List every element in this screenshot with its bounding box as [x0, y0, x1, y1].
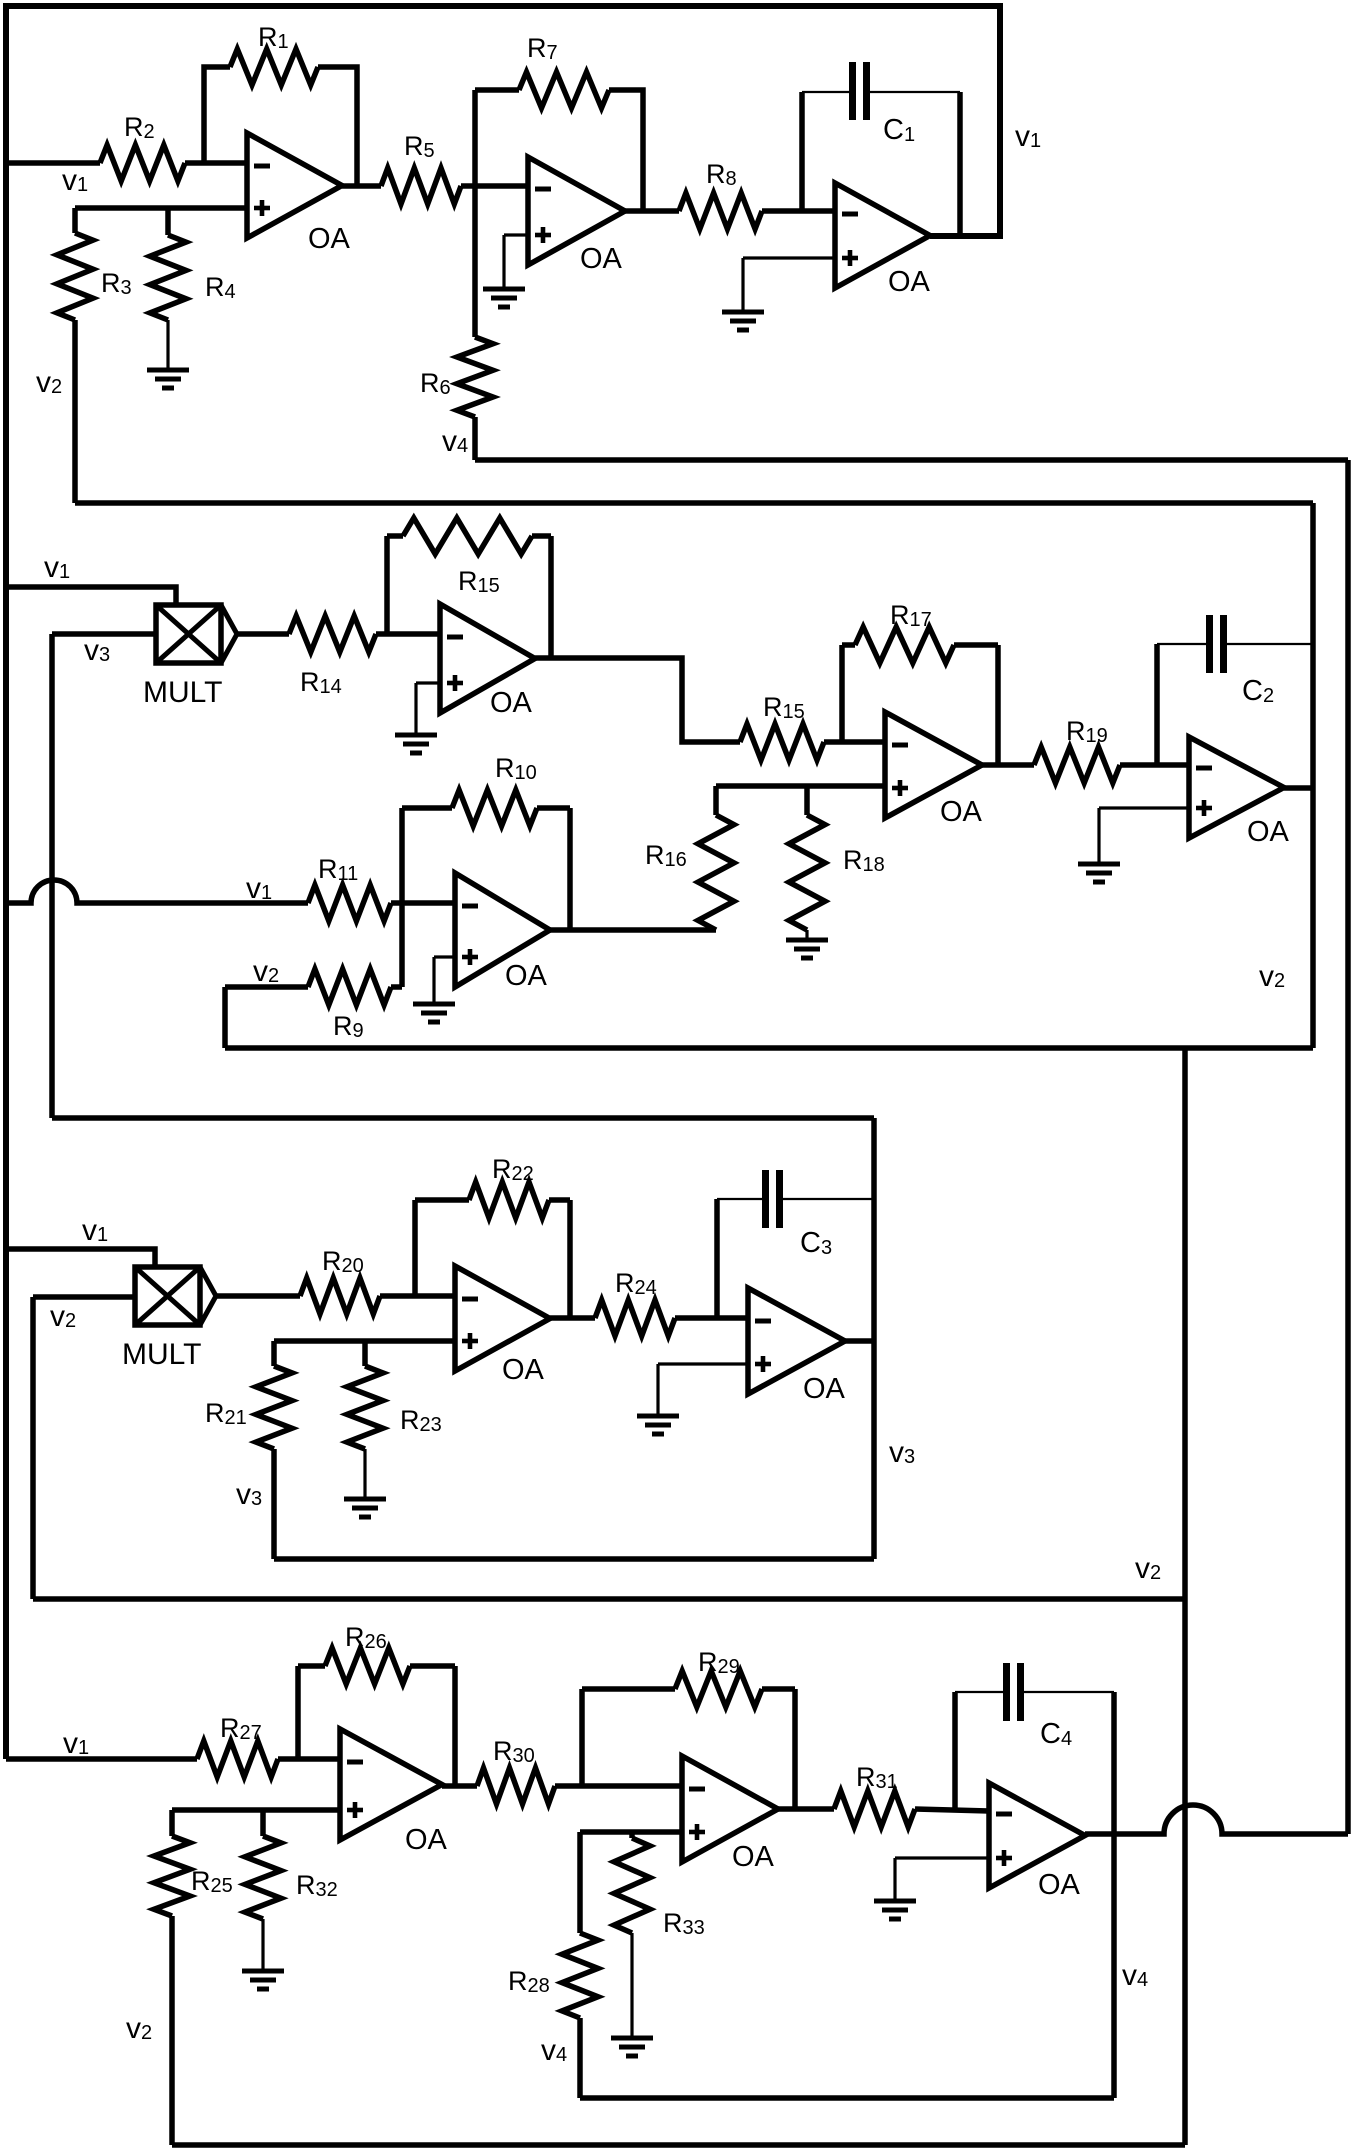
- wire U11 non-inverting input bus: [580, 1829, 682, 1835]
- op-amp U5 (OA): [885, 712, 983, 828]
- wire R17 feedback leads: [842, 645, 998, 765]
- wire R7 left lead / node to R6: [472, 90, 478, 337]
- node V4 label (R6 bottom): [442, 425, 468, 458]
- wire U10 non-inverting input bus: [172, 1807, 340, 1813]
- wire R15 feedback leads (U4): [387, 536, 551, 658]
- wire U2 + input to ground: [504, 235, 528, 287]
- resistor R6: [420, 337, 493, 417]
- wire R29 feedback leads: [582, 1689, 795, 1809]
- wire R23 top lead: [362, 1341, 368, 1366]
- wire U6 output to R16 bottom: [550, 927, 716, 933]
- wire U10 output to R30: [442, 1783, 477, 1789]
- wire V2 drop to bottom rail: [1182, 1599, 1188, 2145]
- resistor R20: [300, 1246, 380, 1314]
- op-amp U2 (OA): [528, 157, 625, 275]
- wire R33 to ground: [630, 1933, 633, 2036]
- wire R24 to U9 inverting input: [675, 1315, 748, 1321]
- ground (U2 non-inverting): [483, 289, 525, 307]
- resistor R8: [679, 159, 762, 229]
- wire R28 top lead: [577, 1832, 583, 1933]
- resistor R27: [197, 1713, 278, 1777]
- wire V2 drop to third stage: [1182, 1048, 1188, 1599]
- wire R6 bottom to V4 rail: [472, 417, 478, 460]
- svg-text:OA: OA: [490, 687, 533, 719]
- svg-text:OA: OA: [405, 1824, 448, 1856]
- wire R7 feedback leads: [475, 90, 643, 211]
- wire V3 feedback top of stage 3: [52, 1115, 874, 1121]
- wire V2 to MULT B lower input: [33, 1294, 135, 1300]
- wire R1 feedback leads: [204, 67, 357, 186]
- resistor R26: [325, 1622, 410, 1684]
- node V1 label (R2 input): [62, 164, 88, 197]
- svg-text:OA: OA: [502, 1354, 545, 1386]
- wire R33 top lead: [629, 1832, 635, 1838]
- wire R9 input drop to V2 rail: [222, 987, 228, 1048]
- wire R2 to OA inverting input: [185, 160, 247, 166]
- wire V2 to R9: [225, 984, 308, 990]
- resistor R30: [477, 1736, 555, 1804]
- wire C3 plate connectors: [717, 1198, 874, 1200]
- wire U3 + input to ground: [743, 258, 835, 310]
- wire U4 + input to ground: [416, 683, 440, 733]
- capacitor C1: [853, 62, 916, 146]
- capacitor C3: [766, 1170, 833, 1259]
- resistor R24: [595, 1268, 675, 1336]
- wire U9 output (V3): [845, 1338, 874, 1344]
- wire R11 to U6 inverting input: [391, 900, 455, 906]
- wire U1 output to R5: [342, 183, 381, 189]
- wire R32 top lead: [260, 1810, 266, 1836]
- ground (below R33): [611, 2038, 653, 2056]
- wire R3 bottom to V2 rail: [72, 320, 78, 503]
- wire R10 feedback leads: [402, 808, 570, 930]
- resistor R23: [347, 1366, 442, 1449]
- svg-text:OA: OA: [1038, 1869, 1081, 1901]
- resistor R15 (input of U5): [740, 692, 824, 760]
- op-amp U1 (OA): [247, 133, 351, 255]
- svg-text:OA: OA: [580, 243, 623, 275]
- resistor R5: [381, 131, 461, 204]
- wire V3 vertical rail: [49, 634, 55, 1118]
- wire R30 to U11 inverting input: [555, 1783, 682, 1789]
- svg-text:OA: OA: [732, 1841, 775, 1873]
- resistor R28: [508, 1933, 598, 2018]
- resistor R3: [57, 233, 132, 320]
- wire V2 rail bottom: [225, 1045, 1313, 1051]
- ground (U12 non-inverting): [874, 1901, 916, 1919]
- wire V1 to R27: [6, 1756, 197, 1762]
- wire V1 to MULT B upper input: [6, 1249, 155, 1267]
- ground (below R32): [242, 1971, 284, 1989]
- wire V4 feedback rail to top stage: [475, 460, 1348, 1834]
- op-amp U7 integrator (OA): [1189, 737, 1290, 848]
- op-amp U6 summer (OA): [455, 873, 550, 992]
- wire C3 left lead: [714, 1199, 720, 1318]
- wire R18 top lead: [804, 786, 810, 815]
- node V3 label (right rail): [889, 1436, 915, 1469]
- wire U5 non-inverting input bus: [716, 783, 885, 789]
- op-amp U9 integrator (OA): [748, 1288, 846, 1405]
- resistor R16: [645, 815, 734, 930]
- node V1 label (MULT B): [82, 1214, 108, 1247]
- wire R25 bottom to V2 rail: [169, 1916, 175, 2145]
- wire U9 + input to ground: [658, 1364, 748, 1414]
- wire C1 left lead: [799, 92, 805, 211]
- wire R21 top lead: [271, 1341, 277, 1366]
- ground (below R18): [786, 940, 828, 958]
- wire R28 bottom to V4 loop: [577, 2018, 583, 2098]
- wire V1 to MULT A upper input: [6, 587, 176, 605]
- wire C4 right lead and V4 loop down: [1111, 1692, 1117, 2098]
- wire R16 top lead: [713, 786, 719, 815]
- wire V3 bottom return of stage 3: [274, 1556, 874, 1562]
- resistor R17: [855, 600, 954, 663]
- resistor R31: [834, 1762, 915, 1827]
- ground (U4 non-inverting): [395, 735, 437, 753]
- node V2 label (MULT B): [50, 1300, 76, 1333]
- op-amp U10 (OA): [340, 1729, 448, 1856]
- node V3 label (R21 bottom): [236, 1478, 262, 1511]
- resistor R19: [1034, 716, 1120, 783]
- wire U12 + input to ground: [895, 1858, 989, 1899]
- wire V4 loop bottom: [580, 2095, 1114, 2101]
- wire R3 top lead: [72, 208, 78, 233]
- wire C1 plate connectors: [802, 91, 960, 93]
- wire R21 bottom to V3 rail: [271, 1449, 277, 1559]
- node V2 label (left): [36, 366, 62, 399]
- resistor R33: [614, 1838, 705, 1939]
- wire V3 to MULT A lower input: [52, 631, 156, 637]
- resistor R7: [519, 33, 609, 108]
- wire U8 non-inverting input bus: [274, 1338, 455, 1344]
- wire R20 to U8 inverting input: [380, 1293, 455, 1299]
- wire U2 output to R8: [625, 208, 679, 214]
- wire C4 plate connectors: [955, 1691, 1114, 1693]
- wire U6 + input to ground: [434, 957, 455, 1002]
- wire R4 to ground: [166, 320, 169, 368]
- op-amp U4 (OA): [440, 604, 535, 719]
- resistor R15 (feedback of U4): [403, 518, 532, 597]
- ground (below R4): [147, 370, 189, 388]
- multiplier MULT B: [122, 1267, 216, 1371]
- wire V2 rail top and right side: [75, 503, 1313, 1048]
- node V2 label (right rail): [1259, 960, 1285, 993]
- node V1 label (MULT A): [44, 551, 70, 584]
- svg-text:OA: OA: [940, 796, 983, 828]
- multiplier MULT A: [143, 605, 237, 709]
- wire R5 to U2 inverting input: [461, 183, 528, 189]
- svg-text:OA: OA: [803, 1373, 846, 1405]
- wire MULT A output to R14: [237, 631, 289, 637]
- wire non-inverting input bus of U1: [75, 205, 247, 211]
- wire U12 output (V4) with hop over V2 rail: [1085, 1805, 1348, 1834]
- wire V1 with hop over V3 rail to R11: [6, 880, 308, 903]
- wire MULT B output to R20: [216, 1293, 300, 1299]
- wire R14 to U4 inverting input: [376, 631, 440, 637]
- resistor R25: [154, 1836, 233, 1916]
- wire R23 to ground: [363, 1449, 366, 1497]
- node V2 label (R9 input): [253, 955, 279, 988]
- resistor R32: [245, 1836, 338, 1919]
- wire R8 to U3 inverting input: [762, 208, 835, 214]
- wire R22 feedback leads: [415, 1200, 570, 1318]
- resistor R9: [308, 969, 391, 1042]
- svg-text:MULT: MULT: [122, 1338, 201, 1371]
- wire C4 left lead: [952, 1692, 958, 1810]
- svg-text:OA: OA: [308, 223, 351, 255]
- wire R9 up to summing node: [391, 903, 402, 987]
- resistor R18: [789, 815, 885, 930]
- node V4 label (R28 bottom): [541, 2034, 567, 2067]
- node V1 label (top right): [1015, 120, 1041, 153]
- resistor R4: [150, 235, 236, 320]
- wire V1 net: OA output to top border and left rail: [6, 6, 1000, 1759]
- wire V2 bottom rail: [172, 2142, 1185, 2148]
- wire U5 output to R19: [982, 762, 1034, 768]
- wire V1 to R2: [6, 160, 100, 166]
- wire V2 rail left of stage 3: [30, 1297, 36, 1599]
- resistor R22: [469, 1154, 549, 1218]
- wire R31 to U12 inverting input: [915, 1809, 989, 1811]
- wire R26 feedback leads: [298, 1666, 455, 1786]
- ground (below R23): [344, 1499, 386, 1517]
- wire C2 left lead: [1154, 644, 1160, 765]
- wire C1 right lead to U3 output: [957, 92, 963, 236]
- wire R4 top lead: [165, 208, 171, 235]
- wire U4 output jog to second R15: [535, 658, 740, 742]
- op-amp U3 integrator (OA): [835, 183, 931, 298]
- capacitor C4: [1007, 1663, 1073, 1750]
- wire V2 lower rail of stage 3: [33, 1596, 1185, 1602]
- resistor R14: [289, 616, 376, 698]
- wire R25 top lead: [169, 1810, 175, 1836]
- node V2 label (R25 bottom): [126, 2012, 152, 2045]
- node V1 label (R11 input): [246, 872, 272, 905]
- node V4 label (loop): [1122, 1959, 1148, 1992]
- svg-text:OA: OA: [505, 960, 548, 992]
- resistor R21: [205, 1366, 292, 1449]
- node V2 label (lower rail): [1135, 1552, 1161, 1585]
- wire R15 to U5 inverting input: [824, 739, 885, 745]
- wire V3 right rail of stage 3: [871, 1118, 877, 1559]
- ground (U6 non-inverting): [413, 1004, 455, 1022]
- resistor R1: [230, 22, 318, 85]
- wire R32 to ground: [261, 1919, 264, 1969]
- wire U11 output to R31: [778, 1806, 834, 1812]
- svg-text:OA: OA: [1247, 816, 1290, 848]
- wire U7 output (V2): [1284, 785, 1313, 791]
- op-amp U8 (OA): [455, 1266, 550, 1386]
- resistor R10: [452, 753, 537, 826]
- resistor R11: [308, 854, 391, 921]
- wire U7 + input to ground: [1099, 808, 1189, 862]
- op-amp U12 integrator (OA): [989, 1783, 1085, 1901]
- op-amp U11 (OA): [682, 1756, 778, 1873]
- svg-text:MULT: MULT: [143, 676, 222, 709]
- svg-text:OA: OA: [888, 266, 931, 298]
- node V3 label (MULT A): [84, 634, 110, 667]
- ground (U3 non-inverting): [722, 312, 764, 330]
- wire R17 left lead: [839, 645, 845, 742]
- capacitor C2: [1210, 615, 1275, 707]
- ground (U9 non-inverting): [637, 1416, 679, 1434]
- wire R27 to U10 inverting input: [278, 1756, 340, 1762]
- resistor R2: [100, 112, 185, 181]
- resistor R29: [675, 1647, 762, 1707]
- wire R19 to U7 inverting input: [1120, 762, 1189, 768]
- wire R18 to ground: [805, 930, 808, 938]
- ground (U7 non-inverting): [1078, 864, 1120, 882]
- node V1 label (R27 input): [63, 1727, 89, 1760]
- wire C2 plate connectors: [1157, 643, 1313, 645]
- wire U8 output to R24: [550, 1315, 595, 1321]
